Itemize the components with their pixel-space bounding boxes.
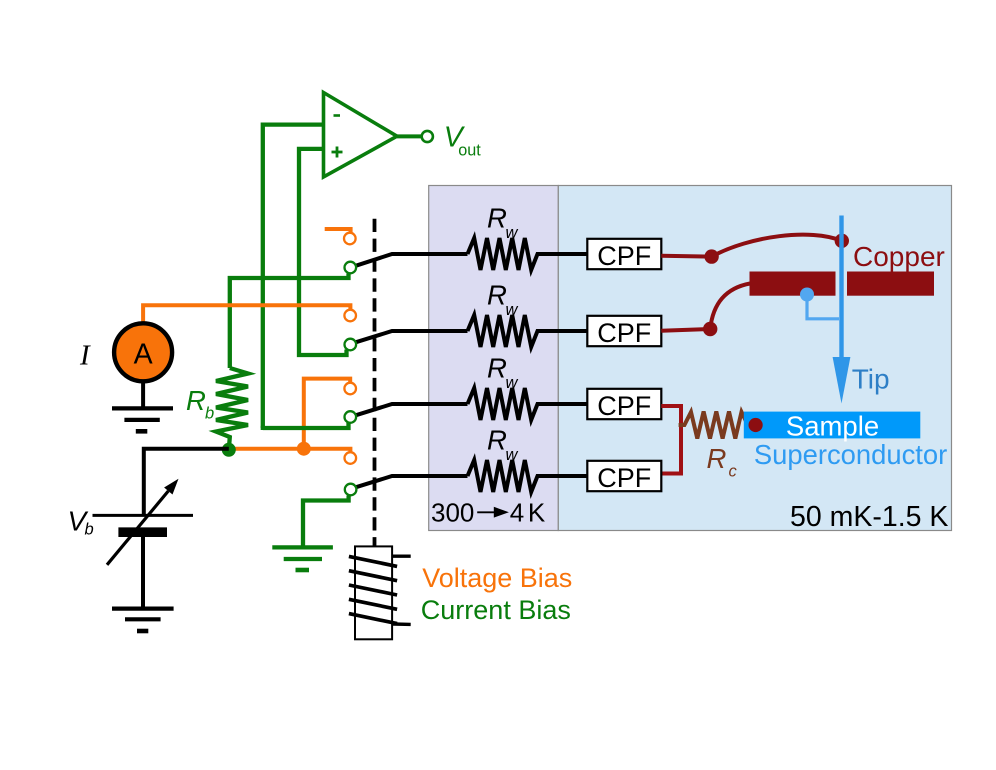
50mK-1.5K stage box xyxy=(558,186,951,531)
contact 4 orange xyxy=(345,452,357,464)
contact 4 green xyxy=(345,484,357,496)
svg-text:A: A xyxy=(134,339,153,371)
resistor Rb xyxy=(216,368,248,450)
resistor Rw1 xyxy=(468,238,588,270)
contact 2 orange xyxy=(344,310,356,322)
svg-text:R: R xyxy=(487,425,507,456)
wire op-amp output xyxy=(397,134,422,138)
contact 1 orange xyxy=(344,233,356,245)
300K-4K stage box xyxy=(429,186,559,531)
copper block right xyxy=(847,272,934,296)
tip wire xyxy=(839,216,843,363)
contact 3 green xyxy=(345,411,357,423)
contact 2 green xyxy=(345,339,357,351)
svg-text:w: w xyxy=(506,374,519,392)
svg-text:CPF: CPF xyxy=(597,318,651,348)
svg-text:CPF: CPF xyxy=(597,241,651,271)
svg-text:K: K xyxy=(528,497,546,527)
svg-text:out: out xyxy=(458,141,481,159)
copper block left xyxy=(750,272,836,296)
contact 1 green xyxy=(345,262,357,274)
switch arm S2 xyxy=(356,331,468,342)
CPF filter box 2 xyxy=(587,316,661,346)
label 300->4K xyxy=(431,497,546,527)
resistor Rw3 xyxy=(468,388,588,420)
wire voltage bias to contact 3 (orange) xyxy=(304,379,350,449)
wire CPF2 output xyxy=(661,329,710,331)
wire CPF3/CPF4 junction xyxy=(661,406,681,474)
wire curve to copper block xyxy=(710,284,750,330)
svg-text:Voltage Bias: Voltage Bias xyxy=(422,563,572,593)
node dot on tip wire xyxy=(835,234,849,248)
CPF filter box 4 xyxy=(587,461,661,491)
wire minus input to contact 3 xyxy=(263,422,349,430)
wire op-amp plus input xyxy=(299,149,347,355)
wire contact 4 to ground xyxy=(303,496,349,547)
svg-text:w: w xyxy=(506,301,519,319)
CPF filter box 3 xyxy=(587,389,661,419)
svg-text:CPF: CPF xyxy=(597,391,651,421)
switch arm S1 xyxy=(356,254,468,266)
svg-text:R: R xyxy=(487,280,507,311)
wire Rb top to contact 1 xyxy=(230,274,349,369)
CPF filter box 1 xyxy=(587,239,661,269)
svg-text:Superconductor: Superconductor xyxy=(754,439,947,470)
svg-text:R: R xyxy=(487,203,507,234)
terminal Vout xyxy=(422,131,433,142)
junction dot green (Rb bottom) xyxy=(222,443,236,457)
ground Vb xyxy=(112,609,174,631)
svg-text:Tip: Tip xyxy=(852,364,890,395)
switch arm S4 xyxy=(356,476,468,487)
wire op-amp minus input xyxy=(263,125,324,428)
variable arrow xyxy=(107,491,168,565)
svg-text:b: b xyxy=(85,521,94,539)
node dot CPF2 xyxy=(703,322,717,336)
battery Vb plate + xyxy=(93,514,194,517)
resistor Rw4 xyxy=(468,460,588,492)
thermal anchor dot xyxy=(800,288,814,302)
node dot CPF1 xyxy=(704,249,718,263)
resistor Rc xyxy=(679,412,756,439)
ground green xyxy=(272,547,333,570)
svg-text:CPF: CPF xyxy=(597,463,651,493)
op-amp U1 xyxy=(324,93,398,178)
svg-text:Sample: Sample xyxy=(786,411,879,442)
resistor Rw2 xyxy=(468,315,588,347)
svg-text:R: R xyxy=(487,353,507,384)
svg-text:50 mK-1.5 K: 50 mK-1.5 K xyxy=(790,501,948,533)
svg-text:w: w xyxy=(506,446,519,464)
svg-text:4: 4 xyxy=(510,497,524,527)
svg-text:w: w xyxy=(506,224,519,242)
svg-text:Current Bias: Current Bias xyxy=(421,595,571,625)
dashed cryostat boundary xyxy=(373,219,377,547)
svg-text:Copper: Copper xyxy=(853,241,945,272)
coil stub top xyxy=(392,555,411,558)
junction dot orange xyxy=(297,442,311,456)
contact 3 orange xyxy=(344,383,356,395)
wire thermal anchor xyxy=(807,295,839,319)
ground ammeter xyxy=(112,408,173,431)
transformer coil xyxy=(355,546,392,639)
wire Vb to junction xyxy=(144,449,229,514)
svg-text:R: R xyxy=(186,385,206,416)
node dot on sample xyxy=(749,418,763,432)
wire bias rail (orange) xyxy=(229,449,351,452)
battery Vb plate - xyxy=(118,527,167,537)
wire curve to tip wire xyxy=(712,235,842,257)
tip arrowhead xyxy=(833,357,851,404)
stub contact 1 (orange) xyxy=(325,229,351,233)
ammeter A xyxy=(114,323,172,381)
sample bar xyxy=(744,412,921,439)
coil stub bottom xyxy=(393,622,411,626)
svg-text:c: c xyxy=(729,463,738,481)
svg-text:I: I xyxy=(79,340,91,372)
switch arm S3 xyxy=(356,404,468,415)
wire ammeter to contact 2 (orange) xyxy=(143,305,350,321)
wire battery to ground xyxy=(141,537,145,607)
wire ammeter to ground xyxy=(141,382,145,408)
svg-text:R: R xyxy=(707,443,727,474)
svg-text:300: 300 xyxy=(431,497,474,527)
svg-text:b: b xyxy=(205,405,214,423)
wire CPF1 output xyxy=(661,254,711,259)
